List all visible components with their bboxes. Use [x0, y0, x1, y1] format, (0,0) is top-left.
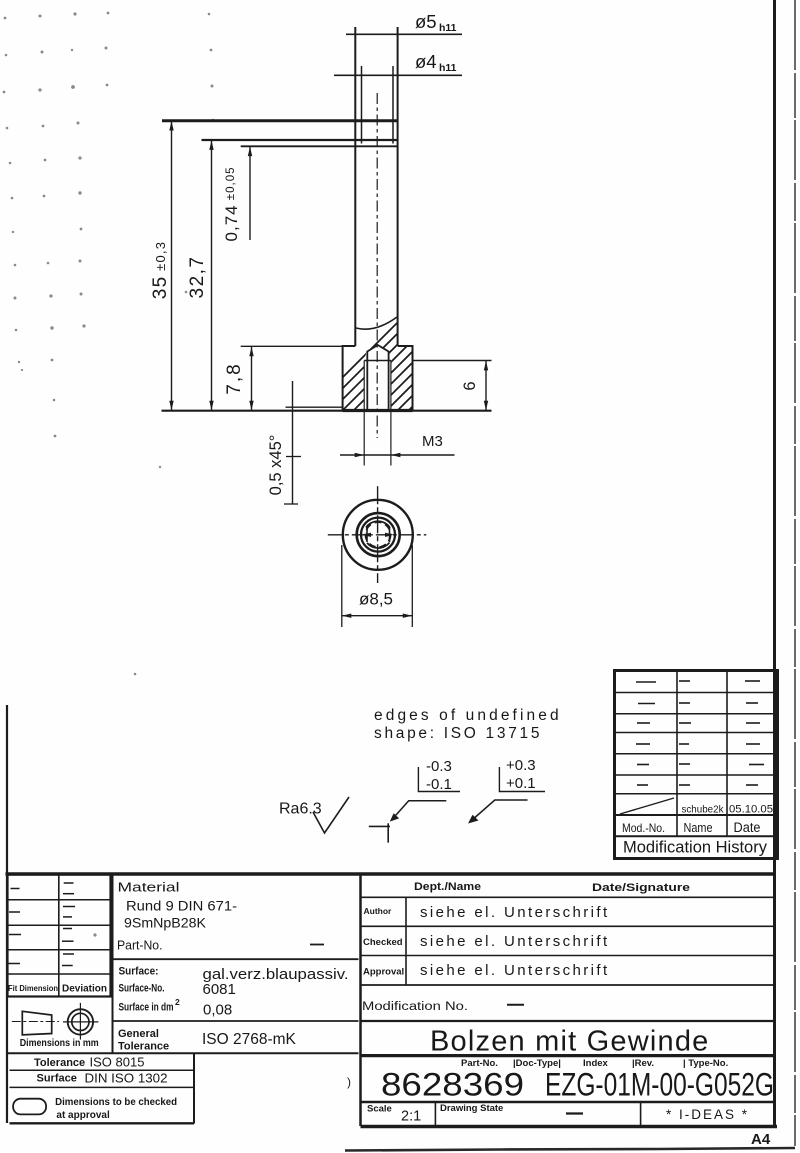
small arrows inside [363, 533, 394, 537]
svg-text:schube2k: schube2k [682, 804, 725, 816]
circle diameter 5 [357, 513, 400, 556]
svg-text:h11: h11 [439, 22, 457, 34]
svg-text:+0.3: +0.3 [506, 757, 536, 774]
right paper edge line [794, 0, 796, 1146]
chamfer leader 0,5 x45 [267, 381, 343, 504]
svg-text:Fit Dimension: Fit Dimension [8, 984, 58, 993]
dimension 0,74 +-0,05 [222, 146, 398, 241]
edge symbol arrow [468, 800, 528, 824]
cone symbol [12, 1011, 59, 1035]
dept/name header [361, 881, 776, 985]
left frame vertical [6, 705, 8, 1123]
part number header strip [461, 1058, 728, 1069]
divider right section [359, 874, 362, 1126]
M3 core hole with drill point [367, 345, 388, 410]
thread runout curve [356, 317, 397, 329]
approval row [361, 962, 776, 985]
svg-text:2: 2 [175, 997, 180, 1007]
svg-text:0,08: 0,08 [203, 1002, 232, 1019]
author row [361, 904, 776, 926]
svg-text:Name: Name [684, 820, 713, 835]
outer circle diameter 8,5 [343, 500, 413, 570]
tolerance / surface box [7, 1053, 359, 1123]
svg-text:-0.1: -0.1 [426, 776, 452, 793]
material cell [117, 880, 324, 953]
diagonal in first cell of schube2k row [620, 798, 674, 814]
M3 thread major diameter lines [363, 361, 365, 411]
svg-text:Modification History: Modification History [623, 839, 768, 857]
fit dimension / deviation table [8, 875, 111, 997]
dimension diameter 4 h11 leader [334, 51, 462, 75]
svg-text:ø5: ø5 [415, 11, 437, 32]
svg-text:Tolerance: Tolerance [118, 1041, 169, 1053]
svg-text:* I-DEAS *: * I-DEAS * [666, 1107, 749, 1122]
tolerance stack -0.3 / -0.1 [418, 758, 460, 793]
bolt shaft outline (right edge) [397, 27, 399, 346]
svg-text:Author: Author [364, 906, 393, 916]
svg-text:edges of undefined: edges of undefined [374, 707, 562, 724]
edge symbol with T mark [369, 801, 447, 843]
svg-text:Surface:: Surface: [119, 966, 159, 978]
svg-text:ISO 2768-mK: ISO 2768-mK [202, 1031, 297, 1048]
svg-text:Part-No.: Part-No. [117, 938, 163, 953]
svg-text:Dimensions to be checked: Dimensions to be checked [55, 1097, 177, 1108]
svg-text:h11: h11 [439, 62, 457, 74]
main horizontal separator [6, 872, 776, 876]
dimension 7,8 [224, 346, 343, 410]
cell dashes [636, 681, 764, 785]
dimension diameter 8,5 [341, 545, 343, 627]
head flange outline [343, 346, 413, 410]
inner diameter 4 lines [361, 66, 363, 144]
svg-text:32,7: 32,7 [187, 256, 208, 299]
svg-text:shape: ISO 13715: shape: ISO 13715 [374, 725, 542, 742]
svg-text:7,8: 7,8 [224, 362, 245, 394]
dimension 32,7 [187, 140, 398, 411]
svg-text:Checked: Checked [363, 937, 403, 948]
svg-text:Surface: Surface [37, 1073, 77, 1085]
svg-text:ø4: ø4 [415, 51, 437, 72]
general tolerance cell [118, 1028, 297, 1053]
svg-text:05.10.05: 05.10.05 [729, 804, 773, 816]
title block [6, 705, 778, 1127]
svg-text:Mod.-No.: Mod.-No. [622, 821, 665, 835]
thread depth line [364, 360, 391, 362]
svg-text:+0.1: +0.1 [506, 775, 536, 792]
svg-text:Scale: Scale [367, 1104, 392, 1115]
svg-text:DIN ISO 1302: DIN ISO 1302 [85, 1071, 168, 1086]
svg-text:Dept./Name: Dept./Name [414, 881, 481, 893]
svg-text:0,5 x45°: 0,5 x45° [267, 435, 285, 496]
svg-text:EZG-01M-00-G052G: EZG-01M-00-G052G [545, 1067, 774, 1103]
part number [381, 1067, 774, 1103]
svg-text:): ) [347, 1075, 351, 1089]
dimension diameter 5 h11 leader [346, 11, 462, 34]
circle diameter 4 [361, 518, 395, 552]
svg-text:Dimensions in mm: Dimensions in mm [20, 1038, 99, 1049]
main side view of bolt [162, 27, 531, 438]
modification no row [361, 1001, 776, 1021]
checked row [361, 933, 776, 956]
svg-text:A4: A4 [751, 1131, 771, 1148]
scale row [367, 1102, 749, 1126]
svg-text:Surface in dm: Surface in dm [119, 1002, 174, 1014]
tolerance stack +0.3 / +0.1 [499, 757, 545, 792]
center lines crosshair [377, 486, 379, 583]
svg-text:6081: 6081 [203, 981, 236, 998]
column lines [676, 671, 678, 837]
svg-text:Drawing State: Drawing State [440, 1103, 503, 1114]
svg-text:Rund 9 DIN 671-: Rund 9 DIN 671- [126, 898, 237, 914]
svg-text:Deviation: Deviation [62, 984, 107, 995]
dimension 6 (thread depth) [413, 361, 492, 411]
flange bottom edge / baseline [162, 410, 492, 412]
svg-text:siehe el. Unterschrift: siehe el. Unterschrift [420, 933, 610, 950]
hidden thread circle [366, 522, 391, 547]
svg-text:M3: M3 [422, 433, 443, 450]
svg-text:ISO 8015: ISO 8015 [90, 1055, 145, 1070]
bottom view of bolt head [328, 486, 427, 627]
bottom paper edge [345, 1148, 795, 1151]
svg-text:Material: Material [118, 880, 180, 895]
divider middle column [112, 874, 114, 1053]
center line of bolt [376, 93, 378, 438]
svg-text:35 ±0,3: 35 ±0,3 [150, 241, 171, 299]
svg-text:8628369: 8628369 [381, 1067, 524, 1103]
inner thread arc details [366, 521, 390, 527]
bolt shaft outline (left edge) [354, 27, 356, 346]
svg-text:Modification No.: Modification No. [362, 1001, 468, 1013]
dimension M3 [340, 411, 455, 466]
svg-text:Date: Date [734, 820, 761, 835]
right frame border [773, 0, 776, 1128]
circle crosshair symbol [63, 1003, 98, 1040]
surface cell [119, 966, 349, 1019]
svg-text:siehe el. Unterschrift: siehe el. Unterschrift [420, 962, 610, 979]
svg-text:-0.3: -0.3 [426, 758, 452, 775]
svg-text:6: 6 [461, 381, 479, 390]
surface roughness Ra6.3 [279, 797, 349, 833]
svg-text:2:1: 2:1 [401, 1109, 421, 1125]
svg-text:Tolerance: Tolerance [34, 1057, 85, 1069]
svg-text:at approval: at approval [56, 1110, 110, 1121]
svg-text:Surface-No.: Surface-No. [119, 983, 165, 995]
svg-text:9SmNpB28K: 9SmNpB28K [124, 915, 207, 931]
svg-text:Date/Signature: Date/Signature [592, 882, 690, 894]
hatching of sectioned head [300, 300, 530, 420]
svg-text:Bolzen mit Gewinde: Bolzen mit Gewinde [430, 1026, 710, 1058]
svg-text:siehe el. Unterschrift: siehe el. Unterschrift [420, 904, 610, 921]
dimension 35 +-0,3 [150, 121, 398, 411]
svg-text:ø8,5: ø8,5 [359, 590, 393, 609]
row lines [615, 693, 778, 837]
modification history table [615, 671, 778, 859]
note: edges of undefined shape ISO 13715 [374, 707, 562, 742]
title block bottom edge [361, 1125, 778, 1129]
svg-text:Approval: Approval [363, 967, 404, 978]
svg-text:General: General [118, 1028, 159, 1040]
